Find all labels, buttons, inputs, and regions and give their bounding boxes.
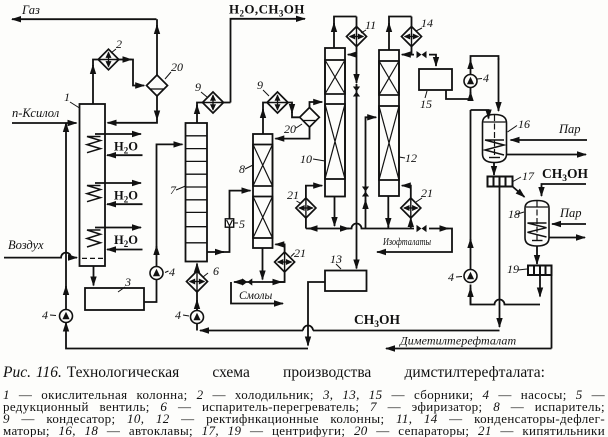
wire: pump 4b discharge to column 7 feed <box>157 144 183 248</box>
wire: centrifuge 17 solids to autoclave 18 <box>513 187 525 198</box>
svg-text:10: 10 <box>300 152 312 166</box>
svg-text:20: 20 <box>284 122 296 136</box>
wire: centrifuge 19 product down to DMT outlet <box>551 275 553 349</box>
wire: steam into autoclave 16 <box>511 139 588 141</box>
column 8 (evaporator) shell <box>253 134 273 248</box>
wire: mother liquor line to pump 4e (hops over filtrate line) <box>471 285 541 305</box>
label 21 with leader (21c) <box>416 186 433 202</box>
wire: column 10 overhead riser arrow <box>333 23 335 48</box>
column 7 tray 9 <box>186 242 208 244</box>
column 10 middle section <box>325 103 345 105</box>
label 8 with leader <box>239 162 253 176</box>
wire: collector 3 to pump 4b <box>144 280 157 303</box>
svg-text:12: 12 <box>405 151 417 165</box>
autoclave 16 vessel <box>483 115 507 163</box>
collector 13 vessel <box>325 271 367 292</box>
wire: autoclave 18 bottom outlet to centrifuge 19 <box>536 246 538 264</box>
svg-text:11: 11 <box>365 18 376 32</box>
label 13 with leader <box>330 252 342 269</box>
svg-text:21: 21 <box>287 188 299 202</box>
label 19 with leader <box>507 262 527 276</box>
label 18 with leader <box>508 207 524 221</box>
wire: main feed drop into autoclave 16 <box>498 58 500 111</box>
condenser-dephlegmator 14 diamond <box>402 27 422 47</box>
wire: fresh methanol into autoclave 18 <box>542 184 587 196</box>
column 7 tray 2 <box>186 148 208 150</box>
cooling coil 3 in column 1 <box>87 230 101 247</box>
wire: centrifuge 17 filtrate down to CH3OH header <box>499 187 501 328</box>
column 12 top section line <box>379 60 399 62</box>
svg-text:2: 2 <box>116 37 122 51</box>
svg-text:13: 13 <box>330 252 342 266</box>
wire: pump 4c to superheater 6 <box>196 300 198 311</box>
wire: bottom recycle line from junction to pump 4a <box>66 323 308 349</box>
autoclave 16 heating coil <box>485 140 504 155</box>
svg-text:1: 1 <box>64 90 70 104</box>
wire: column 8 overhead corner to condenser 9b <box>263 103 267 112</box>
wire: valve 5 to column 8 feed <box>230 191 251 219</box>
wire: steam out of autoclave 18 <box>549 237 585 239</box>
wire: condenser 14 down to tee <box>411 17 413 55</box>
centrifuge 17 <box>488 177 513 187</box>
svg-text:H2O: H2O <box>114 189 138 205</box>
label 10 with leader <box>300 152 325 166</box>
label 9 with leader (9a) <box>195 80 207 97</box>
wire: pump 4d discharge arrow <box>470 60 472 75</box>
svg-text:Воздух: Воздух <box>8 238 44 252</box>
wire: column 10 riser corner to condenser 11 <box>334 17 357 27</box>
column 7 tray 7 <box>186 211 208 213</box>
label 21 with leader (21a) <box>291 246 306 260</box>
wire: corner up into reboiler 21a <box>280 272 285 282</box>
autoclave 18 vessel <box>525 201 549 247</box>
label 9 with leader (9b) <box>257 78 269 96</box>
wire: CH3OH line stub under pump 4c <box>196 324 198 331</box>
column 1 dashed level line <box>82 257 103 259</box>
column 10 packing X lower <box>325 104 345 179</box>
wire: pump 4d suction arrow <box>470 92 472 99</box>
label 21 with leader (21b) <box>287 188 300 203</box>
wire: reboiler 21c bottom stub <box>410 218 412 229</box>
wire: condenser 11 down through reflux tee <box>356 17 358 55</box>
pump 4c <box>191 311 204 324</box>
column 7 tray 3 <box>186 160 208 162</box>
evaporator-superheater 6 diamond <box>187 271 208 292</box>
wire: corner up to valve 5 <box>222 227 230 252</box>
autoclave 18 heating coil <box>528 223 547 237</box>
autoclave 18 stirrer bar <box>532 240 543 242</box>
column 7 tray 8 <box>186 226 208 228</box>
autoclave 16 stirrer bar <box>489 157 500 159</box>
wire: column 7 overhead corner to condenser 9a <box>197 103 203 108</box>
bowtie valve on isophthalates line <box>417 225 427 232</box>
wire: bottoms transfer hop over distillate line <box>347 224 366 229</box>
wire: reboiler 21a return to column 8 <box>275 244 284 252</box>
pump 4e <box>464 270 477 283</box>
wire: cooler 2 outlet arrow <box>119 59 132 61</box>
autoclave 18 shoulder line <box>526 206 548 208</box>
label 15 with leader <box>420 91 432 111</box>
label 2 with leader <box>111 37 122 53</box>
wire: pump 4b discharge arrow <box>156 246 158 267</box>
column 12 packing X upper <box>379 61 399 95</box>
wire: column 7 bottoms side draw arrow <box>207 251 224 253</box>
wire: cooling water outlet arrow coil 1 <box>95 133 141 135</box>
label 4 for pump 4a <box>42 308 56 322</box>
wire: column 12 overhead riser arrow <box>388 23 390 50</box>
reboiler 21a diamond <box>275 252 295 272</box>
column 8 bottom section line <box>253 237 273 239</box>
wire: reboiler 21b bottom stub with arrow <box>306 218 314 229</box>
svg-text:4: 4 <box>169 265 175 279</box>
label 20 with leader (20b) <box>284 122 302 136</box>
svg-text:4: 4 <box>448 270 454 284</box>
wire: cooling water outlet arrow coil 2 <box>95 182 141 184</box>
column 7 tray 1 <box>186 135 208 137</box>
svg-text:H2O: H2O <box>114 140 138 156</box>
column 8 packing X upper <box>253 145 273 187</box>
wire: corner into separator 20b <box>292 112 300 117</box>
wire: cooling water inlet arrow coil 1 <box>107 154 143 156</box>
svg-text:21: 21 <box>421 186 433 200</box>
wire: gas overhead line to Газ outlet <box>12 18 157 20</box>
wire: centrifuge 19 mother liquor down to pump line <box>539 275 541 297</box>
wire: column 1 overhead riser to cooler 2 <box>92 65 94 104</box>
column 10 packing X upper <box>325 60 345 94</box>
column 12 packing X lower <box>379 106 399 180</box>
autoclave 16 shoulder line <box>484 121 506 123</box>
wire: column 8 bottoms drop <box>262 248 264 280</box>
svg-text:9: 9 <box>257 78 263 92</box>
svg-text:CH3OH: CH3OH <box>354 312 401 330</box>
wire: collector 15 to pump 4d <box>446 88 471 99</box>
column 12 (rectification column) shell <box>379 50 399 196</box>
svg-text:16: 16 <box>518 117 530 131</box>
svg-text:Пар: Пар <box>559 206 582 220</box>
wire: flow arrow into reboiler 21a <box>272 281 282 283</box>
wire: separator 20a gas up to Газ line <box>156 25 158 75</box>
label 6 with leader <box>203 264 219 278</box>
pump 4b <box>150 267 163 280</box>
label 4 for pump 4b <box>165 265 175 279</box>
wire: column 12 bottoms stub <box>387 226 389 229</box>
wire: stub into superheater 6 <box>196 292 198 302</box>
wire: separator 20a top corner <box>156 19 158 30</box>
svg-text:7: 7 <box>170 183 177 197</box>
column 12 middle section <box>379 105 399 107</box>
label 14 with leader <box>416 16 433 31</box>
wire: methanol recycle header CH3OH (hops over drain at x=308) <box>200 326 500 331</box>
bowtie valve on distillate line <box>353 87 360 97</box>
svg-text:3: 3 <box>124 275 131 289</box>
wire: resins line with valve to corner <box>234 281 285 283</box>
separator 20a diamond <box>147 75 168 96</box>
column 10 top section line <box>325 59 345 61</box>
pump 4d <box>464 75 477 88</box>
condenser-dephlegmator 11 diamond <box>347 27 367 47</box>
column 7 (esterifier) shell <box>186 123 208 262</box>
wire: condenser 9b outlet down arrow <box>288 103 292 114</box>
wire: reboiler 21c return to column 12 <box>402 186 411 198</box>
wire: column 12 bottoms drop <box>387 196 389 227</box>
svg-text:4: 4 <box>42 308 48 322</box>
cooler 2 (холодильник) diamond <box>98 49 119 70</box>
wire: distillate down arrow <box>356 55 358 83</box>
svg-text:21: 21 <box>294 246 306 260</box>
svg-text:п-Ксилол: п-Ксилол <box>12 106 60 120</box>
wire: cooling water inlet arrow coil 2 <box>107 203 143 205</box>
wire: bottoms line along y=228.5 <box>366 228 415 230</box>
label 20 with leader <box>165 60 183 79</box>
autoclave 18 stirrer shaft <box>536 201 538 240</box>
label 1 with leader <box>64 90 80 108</box>
wire: riser corner into cooler 2 <box>93 60 98 67</box>
reboiler 21c diamond <box>401 198 421 218</box>
wire: cooling water inlet arrow coil 3 <box>107 249 143 251</box>
wire: cooler 2 outlet corner into separator 20a <box>130 60 144 86</box>
svg-text:Изофталаты: Изофталаты <box>382 236 431 248</box>
bowtie valve after condenser 14 <box>417 51 427 58</box>
label 3 with leader <box>118 275 131 292</box>
wire: cooling water outlet arrow coil 3 <box>95 227 141 229</box>
svg-text:20: 20 <box>171 60 183 74</box>
wire: bottoms transfer line arrow <box>306 228 349 230</box>
svg-text:6: 6 <box>213 264 219 278</box>
autoclave 16 stirrer shaft <box>494 115 496 157</box>
wire: bottoms line arrow after valve <box>429 228 449 230</box>
svg-text:14: 14 <box>421 16 433 30</box>
svg-text:Диметилтерефталат: Диметилтерефталат <box>399 334 517 348</box>
svg-text:H2O: H2O <box>114 233 138 249</box>
bowtie valve on resins line <box>242 278 252 285</box>
wire: autoclave 16 bottom outlet to centrifuge 17 <box>493 163 495 176</box>
svg-text:4: 4 <box>175 308 181 322</box>
wire: column 1 bottom outlet to collector 3 <box>93 266 95 286</box>
wire: reflux into column 12 <box>402 54 412 56</box>
wire: steam into autoclave 18 <box>552 223 586 225</box>
svg-text:8: 8 <box>239 162 245 176</box>
wire: separator 20b liquid back to column 8 <box>275 127 309 139</box>
wire: pump 4e riser to autoclave 16 corner <box>470 110 472 241</box>
column 7 tray 4 <box>186 173 208 175</box>
bowtie valve on column 12 feed <box>362 187 369 197</box>
wire: column 12 riser corner to condenser 14 <box>389 17 412 27</box>
wire: overhead header from condenser 9 to right arrow <box>231 19 306 103</box>
svg-text:Пар: Пар <box>558 122 581 136</box>
collector 15 vessel <box>419 69 452 90</box>
svg-text:4: 4 <box>483 71 489 85</box>
column 10 (rectification column) shell <box>325 48 345 197</box>
wire: pump 4d discharge corner to feed drop <box>471 56 499 63</box>
cooling coil 1 in column 1 <box>87 137 101 153</box>
wire: pump 4e discharge riser arrow <box>470 239 472 270</box>
column 7 tray 6 <box>186 199 208 201</box>
wire: separator 20b vapor to column 10 <box>310 102 323 108</box>
column 8 top section line <box>253 144 273 146</box>
wire: column 8 overhead riser arrow <box>262 109 264 134</box>
svg-text:17: 17 <box>522 169 535 183</box>
wire: air feed line into column 1 (hops over recycle line) <box>4 253 77 258</box>
label 16 with leader <box>508 117 531 132</box>
label 4 for pump 4d <box>477 71 489 85</box>
svg-text:15: 15 <box>420 97 432 111</box>
svg-text:5: 5 <box>239 217 245 231</box>
wire: condenser 9a outlet up to overhead header <box>224 102 231 104</box>
column 1 (oxidation column) shell <box>80 104 106 266</box>
column 8 packing X lower <box>253 197 273 239</box>
wire: reboiler 21b return to column 10 <box>306 186 322 198</box>
wire: column 12 feed riser arrow <box>365 200 367 229</box>
svg-text:Смолы: Смолы <box>239 290 272 302</box>
wire: pump 4e suction arrow <box>470 288 472 305</box>
reduction valve 5 <box>225 219 233 227</box>
wire: distillate through valve to collector 15 <box>412 55 437 66</box>
label 7 with leader <box>170 183 186 197</box>
wire: collector 13 drain to bottom recycle <box>308 282 325 346</box>
column 7 tray 5 <box>186 186 208 188</box>
collector 3 vessel <box>85 288 144 310</box>
label 17 with leader <box>513 169 535 183</box>
cooling coil 2 in column 1 <box>87 186 101 202</box>
reboiler 21b diamond <box>296 198 316 218</box>
svg-text:CH3OH: CH3OH <box>542 166 589 184</box>
wire: steam out of autoclave 16 <box>507 154 587 156</box>
label 11 with leader <box>361 18 376 33</box>
wire: p-xylene feed line into column 1 <box>12 122 77 124</box>
pump 4a <box>60 310 73 323</box>
wire: dimethyl terephthalate outlet line <box>386 348 552 350</box>
wire: recycle line from pump 4a up to feed line <box>65 123 67 288</box>
wire: isophthalates outlet hook <box>377 229 452 253</box>
condenser 9a diamond <box>203 92 224 113</box>
wire: distillate down to collector 13 <box>356 84 358 269</box>
separator 20b diamond <box>300 108 320 128</box>
svg-text:9: 9 <box>195 80 201 94</box>
svg-text:19: 19 <box>507 262 519 276</box>
wire: column 10 bottoms drop <box>334 197 336 227</box>
wire: column 12 feed riser to column <box>366 117 377 202</box>
centrifuge 19 <box>528 266 552 276</box>
wire: column 7 overhead riser arrow <box>196 105 198 123</box>
wire: separator 20a liquid return into column 1 <box>108 119 158 123</box>
wire: reflux into column 10 <box>348 54 357 56</box>
column 10 bottom section line <box>325 178 345 180</box>
label 4 for pump 4c <box>175 308 189 322</box>
svg-text:Газ: Газ <box>21 3 40 17</box>
label 5 with dash <box>235 217 246 231</box>
svg-text:H2O,CH3OH: H2O,CH3OH <box>229 2 305 19</box>
wire: separator 20a liquid down arrow <box>156 96 158 120</box>
wire: resins outlet hook under Смолы <box>231 282 283 304</box>
wire: superheater 6 to column 7 bottom <box>196 264 198 272</box>
column 12 bottom section line <box>379 179 399 181</box>
wire: recycle riser arrow above pump 4a <box>65 286 67 310</box>
condenser 9b diamond <box>267 92 288 113</box>
column 8 middle section <box>253 196 273 198</box>
label 12 with leader <box>399 151 417 165</box>
label 4 for pump 4e <box>448 270 462 284</box>
wire: mother liquor feed into autoclave 16 top <box>471 110 489 119</box>
